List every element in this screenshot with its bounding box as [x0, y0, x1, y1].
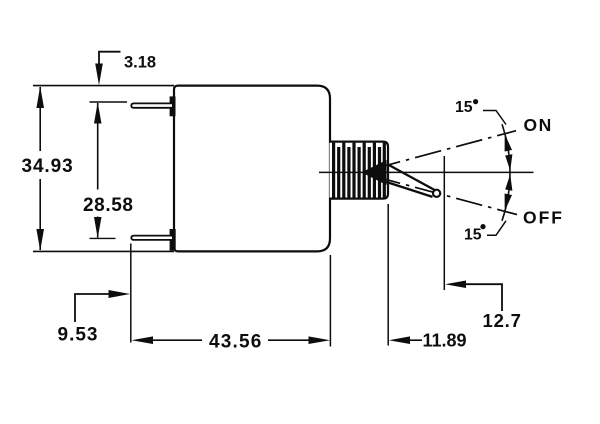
svg-text:15: 15 — [455, 99, 473, 116]
toggle lever lower side — [385, 182, 433, 197]
11.89 tail line — [409, 339, 422, 341]
arrow 9.53 — [109, 290, 131, 298]
extension line body right edge — [329, 255, 331, 347]
9.53 leader — [75, 294, 110, 322]
extension line lever tip — [443, 156, 445, 290]
dimension line 28.58 — [97, 103, 99, 190]
arc arrowhead upper-inner — [505, 154, 512, 171]
extension line bottom pin — [90, 237, 116, 239]
extension line pin left end (9.53 / 43.56 datum) — [130, 244, 132, 343]
dimension line 34.93 — [39, 87, 41, 151]
extension line bushing right edge — [387, 204, 389, 346]
threaded bushing outline — [330, 142, 389, 199]
svg-text:ON: ON — [524, 115, 553, 135]
dimension line 43.56 — [151, 339, 202, 341]
bottom terminal base — [170, 229, 176, 251]
lower 15deg dash-dot line (OFF position) — [374, 176, 517, 214]
arc arrowhead upper-outer — [505, 134, 512, 152]
arc arrowhead lower-inner — [505, 174, 512, 191]
horizontal centerline — [319, 171, 534, 173]
upper 15deg dash-dot line (ON position) — [374, 131, 516, 169]
arrow 34.93 bottom — [36, 229, 44, 251]
bottom terminal pin — [131, 236, 172, 240]
svg-text:43.56: 43.56 — [209, 332, 263, 353]
svg-text:9.53: 9.53 — [58, 325, 99, 346]
degree dot upper — [473, 99, 478, 104]
arrow 12.7 — [445, 281, 466, 289]
top extension line of body — [33, 85, 174, 87]
12.7 leader — [465, 284, 502, 311]
toggle lever tip — [433, 190, 440, 197]
svg-text:34.93: 34.93 — [22, 156, 74, 177]
svg-text:3.18: 3.18 — [124, 54, 156, 72]
arrow 11.89 — [389, 336, 410, 344]
arc arrowhead lower-outer — [505, 194, 512, 212]
arrow 28.58 top — [94, 102, 102, 123]
bushing thread lines — [334, 143, 385, 198]
switch body outline — [174, 86, 330, 252]
top terminal base — [170, 96, 176, 116]
arrow 43.56 left — [132, 336, 154, 344]
svg-text:11.89: 11.89 — [423, 331, 467, 351]
arrow 3.18 — [95, 64, 103, 86]
arrow 28.58 bottom — [94, 217, 102, 238]
leader for upper 15deg label — [483, 111, 506, 125]
svg-text:OFF: OFF — [523, 208, 564, 228]
toggle lever upper side — [387, 164, 436, 191]
leader for lower 15deg label — [487, 221, 506, 236]
bottom extension line of body — [33, 250, 174, 252]
svg-text:12.7: 12.7 — [483, 310, 522, 331]
arrow 43.56 right — [309, 336, 331, 344]
swing arc — [502, 124, 510, 221]
degree dot lower — [480, 224, 485, 229]
svg-text:15: 15 — [464, 227, 482, 244]
toggle lever root (filled cone) — [362, 160, 387, 185]
dimension 3.18 bracket — [99, 52, 121, 64]
extension line top pin — [90, 101, 128, 103]
top terminal pin — [131, 103, 172, 107]
arrow 34.93 top — [36, 86, 44, 108]
svg-text:28.58: 28.58 — [83, 195, 134, 216]
